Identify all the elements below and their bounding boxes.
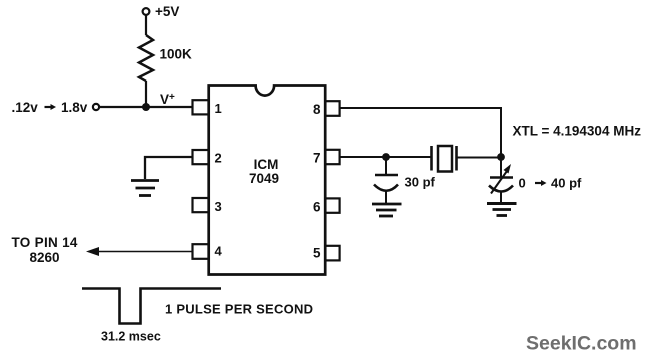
svg-text:1: 1 bbox=[215, 101, 222, 116]
svg-text:30 pf: 30 pf bbox=[405, 175, 436, 190]
svg-text:+5V: +5V bbox=[155, 4, 179, 19]
svg-text:XTL = 4.194304 MHz: XTL = 4.194304 MHz bbox=[513, 124, 642, 139]
svg-text:7: 7 bbox=[313, 151, 321, 166]
svg-text:1 PULSE PER SECOND: 1 PULSE PER SECOND bbox=[165, 302, 313, 317]
svg-text:7049: 7049 bbox=[249, 171, 279, 186]
svg-text:TO PIN 14: TO PIN 14 bbox=[12, 235, 78, 250]
svg-text:4: 4 bbox=[215, 244, 223, 259]
svg-text:ICM: ICM bbox=[254, 157, 279, 172]
svg-text:5: 5 bbox=[313, 246, 321, 261]
svg-text:6: 6 bbox=[313, 199, 321, 214]
svg-text:3: 3 bbox=[215, 199, 222, 214]
svg-text:100K: 100K bbox=[160, 47, 193, 62]
svg-text:8: 8 bbox=[313, 102, 321, 117]
svg-text:2: 2 bbox=[215, 151, 222, 166]
svg-text:8260: 8260 bbox=[30, 250, 60, 265]
svg-text:SeekIC.com: SeekIC.com bbox=[526, 333, 637, 355]
svg-text:31.2 msec: 31.2 msec bbox=[101, 330, 161, 344]
